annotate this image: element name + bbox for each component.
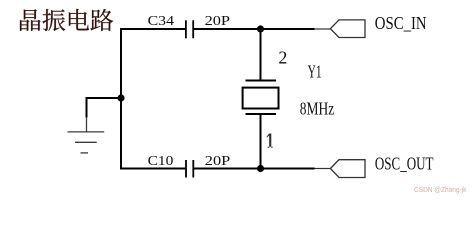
wire crystal top stub (260, 29, 262, 81)
capacitor C34 (186, 20, 193, 38)
svg-text:20P: 20P (205, 154, 231, 169)
ground (68, 117, 105, 153)
svg-text:C34: C34 (148, 14, 174, 29)
wire thin lead into OSC_OUT port (315, 168, 331, 170)
wire top segment C34 to junction and onward (193, 28, 314, 30)
wire ground branch horizontal (87, 97, 122, 99)
crystal Y1 (243, 81, 279, 115)
pin 1 (267, 134, 273, 148)
svg-text:OSC_IN: OSC_IN (375, 13, 427, 33)
port OSC_OUT (330, 160, 365, 178)
junction dot top node (257, 25, 264, 32)
wire crystal bottom stub (260, 114, 262, 169)
wire ground branch vertical (86, 97, 88, 118)
wire thin lead into OSC_IN port (315, 28, 331, 30)
wire left vertical rail (120, 28, 122, 170)
svg-text:CSDN @Zhang-jk: CSDN @Zhang-jk (414, 185, 467, 194)
svg-text:20P: 20P (205, 14, 231, 29)
wire bottom segment left of C10 (121, 168, 186, 170)
capacitor C10 (186, 160, 193, 178)
svg-text:OSC_OUT: OSC_OUT (375, 153, 434, 173)
svg-text:Y1: Y1 (308, 61, 322, 81)
svg-text:8MHz: 8MHz (300, 99, 334, 119)
junction dot bottom node (257, 165, 264, 172)
junction dot ground node (117, 94, 124, 101)
svg-text:C10: C10 (148, 154, 174, 169)
port OSC_IN (330, 20, 365, 38)
title 晶振电路 (20, 9, 113, 31)
wire top segment left of C34 (121, 28, 186, 30)
svg-text:2: 2 (278, 48, 287, 68)
wire bottom segment C10 to junction and onward (193, 168, 314, 170)
